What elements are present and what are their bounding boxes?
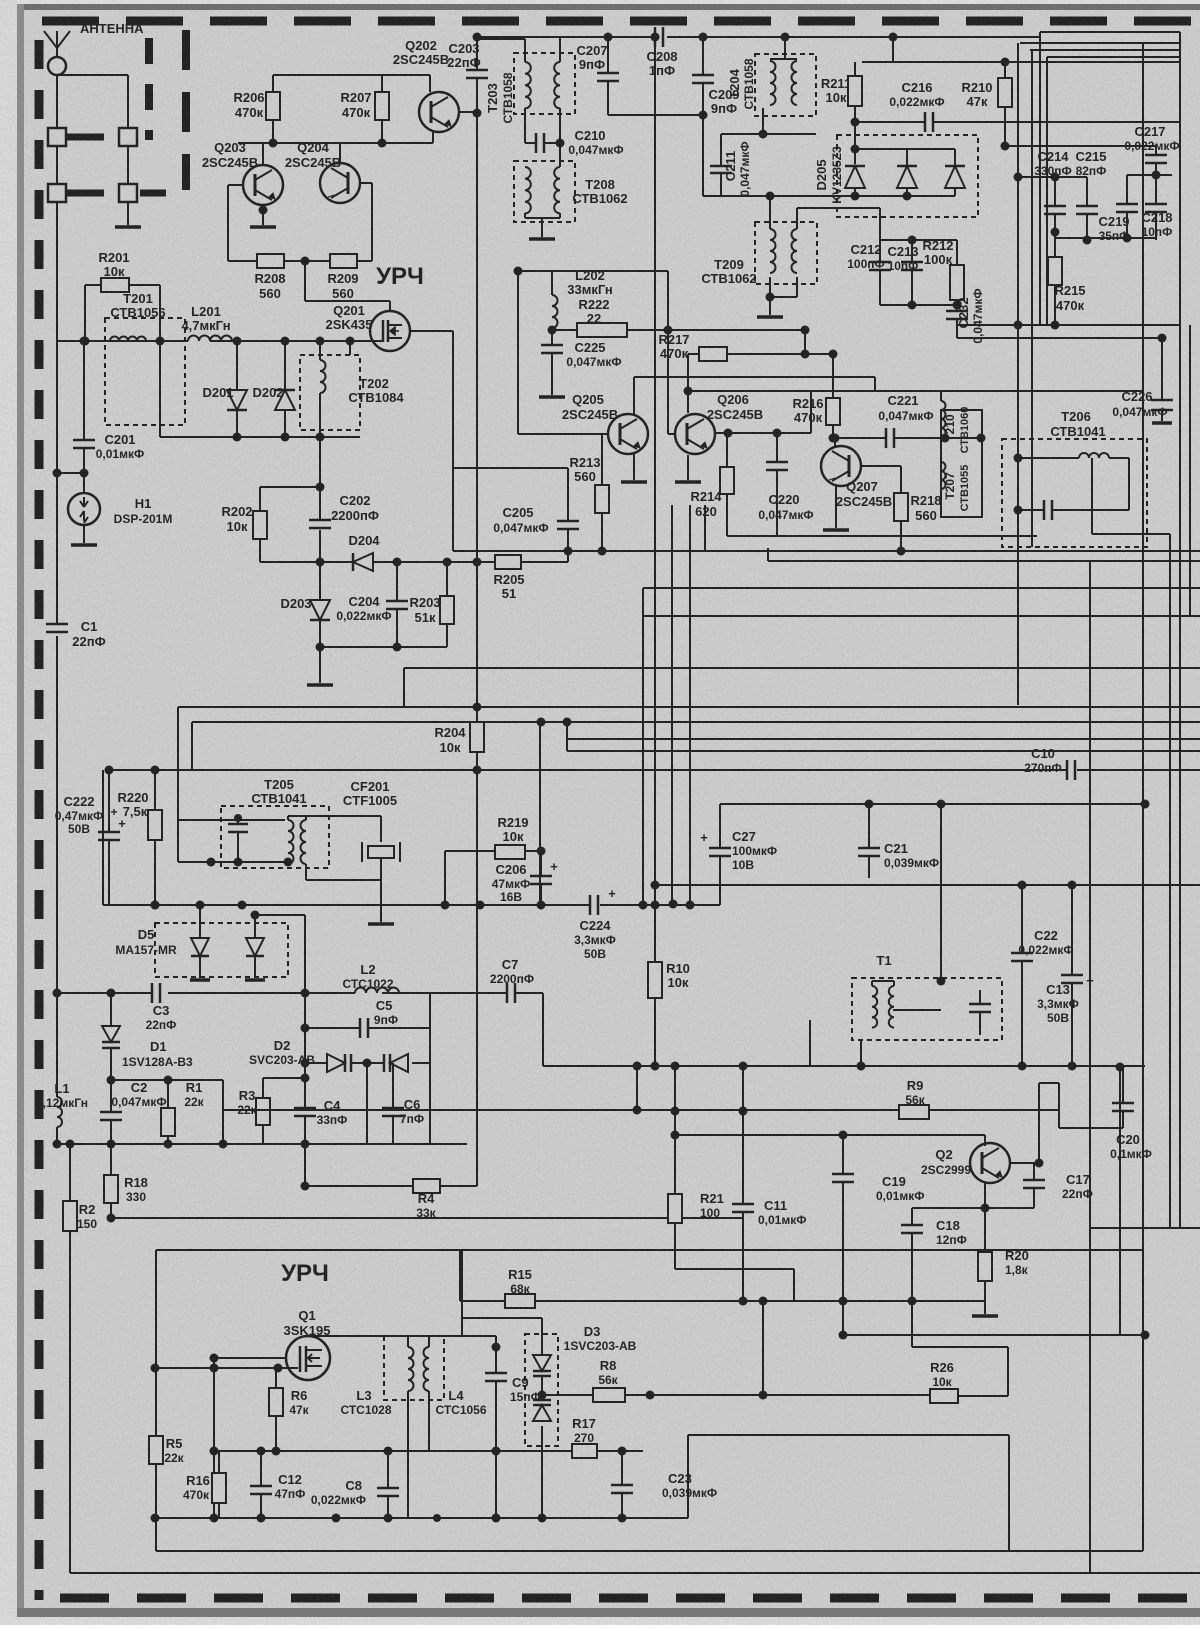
wire top <box>273 74 430 76</box>
rail 993 <box>57 992 152 994</box>
transformer T210/T207 <box>941 410 982 517</box>
Q203 emitter / ground <box>262 205 264 225</box>
balun squares row2 <box>48 184 66 202</box>
Q205 collector <box>633 377 635 414</box>
Q206 base <box>667 330 669 434</box>
antenna wires <box>56 75 58 186</box>
scan noise overlay <box>0 0 1 1</box>
rails cont <box>539 722 541 905</box>
rail 885 <box>655 884 1200 886</box>
rail 1110 <box>223 1109 1059 1111</box>
rails <box>768 560 1200 562</box>
Q205 emitter ground <box>633 452 635 480</box>
bottom row <box>320 646 447 648</box>
rail 196 <box>703 195 955 197</box>
resistor R209 <box>330 254 357 268</box>
rails bottom <box>70 1572 1200 1574</box>
rail 905 <box>103 904 590 906</box>
top bus <box>477 36 657 38</box>
rail gnd <box>984 1301 986 1314</box>
rail jog <box>687 1435 689 1518</box>
vertical x703 <box>702 37 704 75</box>
resistor R208 <box>257 254 284 268</box>
rail 804 <box>720 803 1145 805</box>
long vertical x1090 <box>1089 561 1091 1573</box>
Q1 drain wire <box>308 1335 462 1337</box>
rail 338 <box>957 337 1162 339</box>
balun squares row1 <box>48 128 66 146</box>
Q2 collector <box>1009 1162 1039 1164</box>
rail 1228 right <box>1090 1227 1200 1229</box>
D2 varicaps <box>327 1054 345 1072</box>
resistor R201 <box>101 278 129 292</box>
capacitor C210 <box>524 108 526 143</box>
common rail below <box>160 436 360 438</box>
collector rail <box>688 390 1143 392</box>
ground <box>115 225 141 229</box>
Q204 leg to R209 <box>360 182 372 184</box>
rail 1066 <box>543 1065 810 1067</box>
wires below squares <box>56 146 58 184</box>
vertical x518 <box>517 271 519 434</box>
rail 1335 <box>843 1334 1145 1336</box>
wire main row <box>57 340 85 342</box>
top right corner buses <box>1040 31 1180 33</box>
antenna input dashed box <box>145 38 153 140</box>
node between R208/R209 <box>284 260 330 262</box>
wire 115 <box>608 114 703 116</box>
vertical x214 <box>213 1358 215 1518</box>
wire row562 <box>260 561 353 563</box>
rail 1218 <box>111 1217 743 1219</box>
wire 1451 <box>214 1450 572 1452</box>
rail 1550/1573 <box>1142 1250 1144 1551</box>
rail 551 <box>453 550 1200 552</box>
transistor Q204 <box>320 163 360 203</box>
transistor Q203 <box>243 165 283 205</box>
big box URCH <box>156 1249 1143 1251</box>
box with C2 R1 <box>111 1079 223 1081</box>
wire top62 <box>862 61 1180 63</box>
scan bottom edge <box>17 1608 1200 1617</box>
page border dashed left <box>35 40 44 1600</box>
resistor R206 <box>266 92 280 120</box>
antenna symbol <box>44 31 57 48</box>
rail 1347 <box>912 1346 1008 1348</box>
Q206 out node <box>716 432 728 434</box>
Q206 emitter ground <box>687 455 689 480</box>
resistor R207 <box>375 92 389 120</box>
long left vertical wire <box>56 202 58 624</box>
rail 1518 <box>155 1517 688 1519</box>
scan left edge <box>0 0 17 1625</box>
wire base row <box>238 142 382 144</box>
page border dashed bottom <box>60 1594 1200 1603</box>
Q203 base leg to R208 <box>228 184 243 186</box>
vertical x1120 <box>1119 1067 1121 1335</box>
right verticals <box>1142 43 1144 1550</box>
wire 1135 <box>675 1134 985 1136</box>
rail 536 <box>727 535 1037 537</box>
page border dashed top <box>42 17 1200 26</box>
rail 1144 <box>56 1143 467 1145</box>
wire from T202 down <box>319 437 321 487</box>
scan top edge <box>0 0 1200 4</box>
rail 325 <box>957 324 1180 326</box>
vertical bundle <box>654 37 656 965</box>
